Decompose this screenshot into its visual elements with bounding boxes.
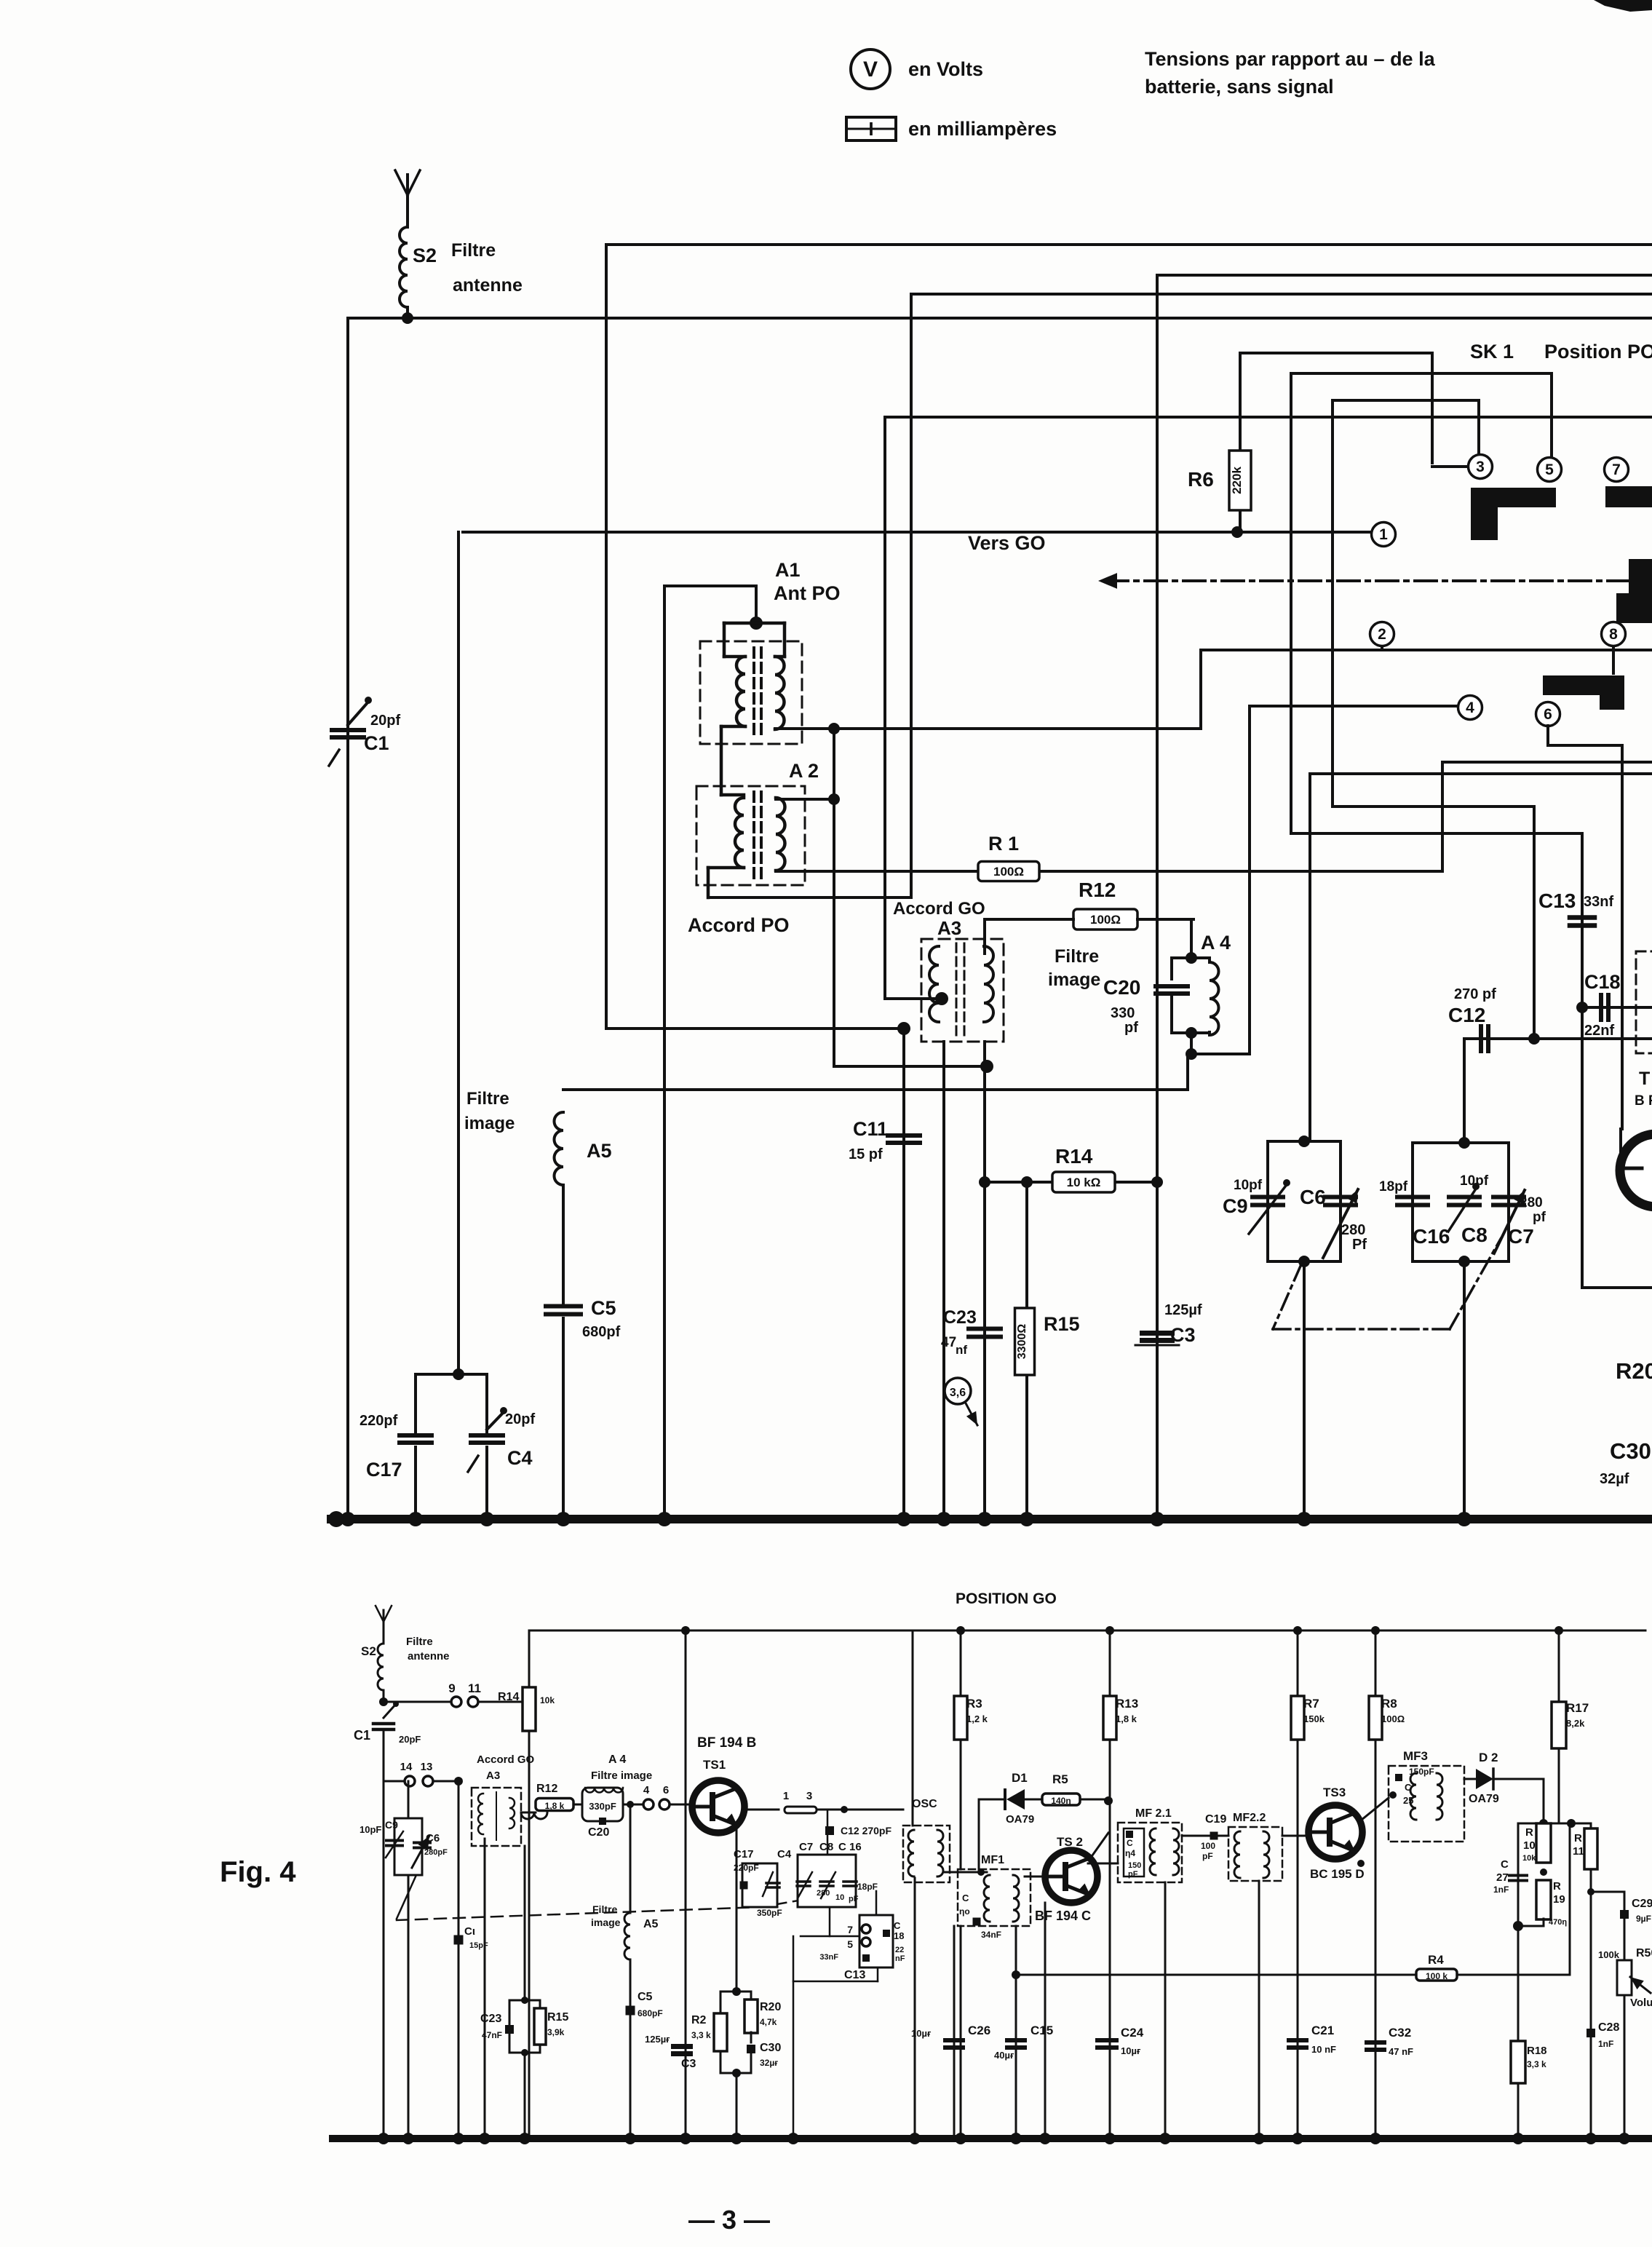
svg-text:47 nF: 47 nF — [1389, 2046, 1413, 2057]
svg-text:A3: A3 — [486, 1770, 500, 1782]
svg-text:C7: C7 — [1508, 1225, 1534, 1248]
svg-text:image: image — [1048, 970, 1100, 990]
svg-text:ηο: ηο — [959, 1906, 970, 1917]
svg-text:image: image — [591, 1917, 621, 1928]
svg-text:C5: C5 — [638, 1991, 653, 2003]
svg-text:TS3: TS3 — [1323, 1786, 1346, 1799]
svg-text:R15: R15 — [1044, 1313, 1080, 1335]
svg-text:C17: C17 — [366, 1459, 402, 1481]
svg-text:C32: C32 — [1389, 2026, 1411, 2040]
svg-text:C12 270pF: C12 270pF — [841, 1825, 891, 1836]
svg-text:100: 100 — [1201, 1841, 1215, 1851]
svg-text:C20: C20 — [1103, 976, 1140, 999]
svg-text:33nf: 33nf — [1584, 894, 1613, 910]
svg-text:10µғ: 10µғ — [1121, 2045, 1141, 2056]
svg-text:100 k: 100 k — [1426, 1971, 1448, 1981]
svg-text:20pF: 20pF — [399, 1734, 421, 1745]
svg-text:Filtre: Filtre — [592, 1903, 617, 1915]
svg-text:nF: nF — [895, 1954, 905, 1963]
svg-text:1: 1 — [1379, 526, 1388, 543]
svg-text:batterie, sans signal: batterie, sans signal — [1145, 76, 1334, 98]
svg-text:antenne: antenne — [408, 1650, 450, 1663]
svg-text:125µf: 125µf — [1164, 1302, 1202, 1318]
svg-text:A 2: A 2 — [789, 760, 819, 782]
svg-text:3300Ω: 3300Ω — [1016, 1324, 1028, 1360]
svg-text:10k: 10k — [540, 1695, 555, 1705]
svg-text:C17: C17 — [734, 1848, 754, 1860]
svg-text:280: 280 — [817, 1889, 830, 1898]
svg-text:C6: C6 — [426, 1832, 440, 1844]
svg-text:20pf: 20pf — [370, 713, 400, 729]
svg-text:Accord PO: Accord PO — [688, 914, 790, 936]
svg-text:4: 4 — [1466, 700, 1474, 716]
svg-text:220pf: 220pf — [360, 1413, 398, 1429]
svg-text:470η: 470η — [1549, 1918, 1567, 1927]
svg-text:14: 14 — [400, 1761, 413, 1773]
svg-text:image: image — [464, 1114, 515, 1133]
svg-text:en milliampères: en milliampères — [908, 118, 1057, 140]
svg-text:A3: A3 — [937, 917, 961, 939]
svg-text:— 3 —: — 3 — — [688, 2205, 770, 2235]
svg-text:47: 47 — [941, 1335, 956, 1350]
svg-text:6: 6 — [663, 1784, 669, 1796]
svg-text:Accord GO: Accord GO — [893, 899, 985, 919]
svg-text:R14: R14 — [498, 1691, 519, 1703]
svg-text:3,9k: 3,9k — [547, 2027, 565, 2037]
svg-text:10 kΩ: 10 kΩ — [1067, 1176, 1101, 1189]
svg-text:S2: S2 — [361, 1644, 376, 1658]
svg-text:R20: R20 — [1616, 1358, 1652, 1384]
svg-text:C7: C7 — [799, 1841, 813, 1853]
svg-text:OA79: OA79 — [1469, 1793, 1499, 1805]
svg-text:pf: pf — [1533, 1210, 1546, 1225]
svg-text:125µғ: 125µғ — [645, 2034, 670, 2045]
svg-text:10k: 10k — [1522, 1854, 1536, 1863]
svg-text:D1: D1 — [1012, 1771, 1028, 1785]
svg-text:C9: C9 — [385, 1819, 398, 1831]
svg-text:Fig. 4: Fig. 4 — [220, 1856, 296, 1888]
svg-text:R 1: R 1 — [988, 833, 1019, 855]
svg-text:R: R — [1553, 1880, 1561, 1893]
svg-text:13: 13 — [421, 1761, 433, 1773]
svg-text:OSC: OSC — [912, 1798, 937, 1810]
svg-text:7: 7 — [847, 1924, 853, 1935]
svg-text:MF 2.1: MF 2.1 — [1135, 1807, 1172, 1820]
svg-text:C13: C13 — [844, 1969, 865, 1981]
svg-text:C: C — [1501, 1858, 1509, 1871]
svg-text:C19: C19 — [1205, 1813, 1226, 1826]
svg-text:350pF: 350pF — [757, 1908, 782, 1918]
svg-text:10: 10 — [835, 1893, 844, 1902]
svg-text:18pF: 18pF — [857, 1882, 878, 1892]
svg-text:R4: R4 — [1428, 1953, 1444, 1967]
svg-text:19: 19 — [1553, 1893, 1565, 1906]
svg-text:140η: 140η — [1051, 1796, 1071, 1806]
svg-text:D 2: D 2 — [1479, 1751, 1498, 1764]
svg-text:7: 7 — [1612, 461, 1621, 478]
svg-text:C1: C1 — [364, 732, 389, 754]
svg-text:5: 5 — [847, 1938, 853, 1950]
svg-text:100Ω: 100Ω — [993, 865, 1024, 879]
svg-text:4,7k: 4,7k — [760, 2017, 777, 2027]
svg-text:15 pf: 15 pf — [849, 1146, 883, 1162]
svg-text:C15: C15 — [1030, 2024, 1053, 2037]
svg-text:C30: C30 — [1610, 1438, 1651, 1464]
svg-text:3,3 k: 3,3 k — [691, 2030, 711, 2040]
svg-text:POSITION GO: POSITION GO — [956, 1590, 1057, 1607]
svg-text:B F: B F — [1635, 1093, 1652, 1109]
svg-text:100Ω: 100Ω — [1090, 913, 1121, 927]
svg-text:R12: R12 — [1079, 879, 1116, 901]
svg-text:32µғ: 32µғ — [760, 2058, 778, 2068]
svg-text:C30: C30 — [760, 2042, 781, 2054]
svg-text:Cι: Cι — [464, 1925, 475, 1938]
svg-text:Position PO: Position PO — [1544, 341, 1652, 362]
svg-text:R2: R2 — [691, 2014, 707, 2026]
svg-text:22nf: 22nf — [1584, 1023, 1614, 1039]
svg-text:Accord GO: Accord GO — [477, 1753, 535, 1766]
svg-text:150: 150 — [1128, 1861, 1141, 1870]
svg-text:1,2 k: 1,2 k — [966, 1713, 988, 1724]
svg-text:18: 18 — [894, 1930, 904, 1941]
svg-text:1,8 k: 1,8 k — [545, 1801, 565, 1811]
svg-text:9µF: 9µF — [1636, 1914, 1651, 1924]
svg-text:C13: C13 — [1538, 889, 1576, 912]
svg-text:C6: C6 — [1300, 1186, 1326, 1208]
svg-text:I: I — [868, 118, 873, 140]
svg-text:antenne: antenne — [453, 275, 523, 296]
svg-text:3,6: 3,6 — [950, 1387, 966, 1399]
svg-text:32µf: 32µf — [1600, 1471, 1629, 1487]
svg-text:BF 194 C: BF 194 C — [1035, 1909, 1091, 1923]
svg-text:pf: pf — [1124, 1020, 1138, 1036]
svg-text:1: 1 — [783, 1790, 789, 1802]
svg-text:R20: R20 — [760, 2001, 781, 2013]
svg-text:34nF: 34nF — [981, 1930, 1001, 1940]
svg-text:8: 8 — [1609, 626, 1618, 643]
svg-text:C20: C20 — [588, 1826, 609, 1839]
svg-text:nf: nf — [956, 1343, 967, 1357]
svg-text:Filtre: Filtre — [466, 1089, 509, 1109]
svg-text:150k: 150k — [1303, 1713, 1325, 1724]
svg-text:BF 194 B: BF 194 B — [697, 1735, 756, 1751]
svg-text:680pF: 680pF — [638, 2008, 663, 2018]
svg-text:280: 280 — [1520, 1195, 1543, 1210]
svg-text:MF3: MF3 — [1403, 1749, 1428, 1763]
svg-text:C9: C9 — [1223, 1195, 1248, 1217]
svg-text:10: 10 — [1523, 1839, 1536, 1852]
svg-text:OA79: OA79 — [1006, 1813, 1034, 1826]
svg-text:A 4: A 4 — [1201, 932, 1231, 954]
svg-text:η4: η4 — [1125, 1848, 1135, 1858]
svg-text:SK 1: SK 1 — [1470, 341, 1514, 362]
svg-text:R14: R14 — [1055, 1145, 1093, 1168]
svg-text:R17: R17 — [1566, 1701, 1589, 1715]
svg-text:C4: C4 — [507, 1447, 533, 1469]
svg-text:330: 330 — [1111, 1005, 1135, 1021]
svg-text:2: 2 — [1378, 626, 1386, 643]
svg-text:T: T — [1639, 1069, 1650, 1089]
svg-text:C21: C21 — [1311, 2024, 1334, 2037]
svg-text:C11: C11 — [853, 1118, 888, 1140]
svg-text:A 4: A 4 — [608, 1753, 626, 1766]
svg-text:pF: pF — [849, 1895, 859, 1903]
svg-text:pF: pF — [1202, 1851, 1213, 1861]
svg-text:R13: R13 — [1116, 1697, 1138, 1711]
svg-text:47nF: 47nF — [482, 2030, 502, 2040]
svg-text:220pF: 220pF — [734, 1863, 759, 1873]
svg-text:MF1: MF1 — [981, 1854, 1004, 1866]
svg-text:C3: C3 — [1170, 1324, 1196, 1346]
svg-text:C3: C3 — [681, 2058, 696, 2070]
svg-text:25: 25 — [1403, 1795, 1413, 1806]
svg-text:V: V — [863, 58, 878, 82]
svg-text:10pF: 10pF — [360, 1824, 381, 1835]
svg-text:R: R — [1574, 1832, 1582, 1844]
svg-text:C26: C26 — [968, 2024, 990, 2037]
svg-text:en Volts: en Volts — [908, 58, 983, 80]
svg-text:C24: C24 — [1121, 2026, 1144, 2040]
svg-text:C8: C8 — [819, 1841, 833, 1853]
svg-text:R50: R50 — [1636, 1947, 1652, 1959]
svg-text:R12: R12 — [536, 1783, 557, 1795]
svg-text:10 nF: 10 nF — [1311, 2044, 1336, 2055]
svg-text:pF: pF — [1128, 1870, 1138, 1879]
svg-text:9: 9 — [448, 1681, 455, 1695]
svg-text:C18: C18 — [1584, 971, 1621, 993]
svg-text:A5: A5 — [587, 1140, 612, 1162]
svg-text:8,2k: 8,2k — [1566, 1718, 1585, 1729]
svg-text:C: C — [1127, 1838, 1133, 1848]
svg-text:R18: R18 — [1527, 2045, 1547, 2057]
svg-text:C: C — [962, 1893, 969, 1903]
svg-text:TS1: TS1 — [703, 1758, 726, 1772]
svg-text:C1: C1 — [354, 1728, 370, 1743]
svg-text:10pf: 10pf — [1234, 1178, 1263, 1193]
svg-text:R8: R8 — [1381, 1697, 1397, 1711]
svg-text:5: 5 — [1545, 461, 1554, 478]
svg-text:C8: C8 — [1461, 1224, 1488, 1246]
svg-text:220k: 220k — [1230, 467, 1244, 494]
svg-text:C12: C12 — [1448, 1004, 1485, 1026]
svg-text:1,8 k: 1,8 k — [1116, 1713, 1137, 1724]
svg-text:Filtre: Filtre — [451, 240, 496, 261]
svg-text:22: 22 — [895, 1946, 904, 1954]
svg-text:C4: C4 — [777, 1848, 792, 1860]
svg-text:Tensions par rapport au – de l: Tensions par rapport au – de la — [1145, 48, 1436, 70]
svg-text:330pF: 330pF — [589, 1801, 616, 1812]
svg-text:Ant PO: Ant PO — [774, 582, 841, 604]
svg-text:R5: R5 — [1052, 1772, 1068, 1786]
svg-text:C23: C23 — [480, 2013, 501, 2025]
svg-text:Filtre image: Filtre image — [591, 1770, 652, 1782]
svg-text:33nF: 33nF — [819, 1953, 838, 1962]
svg-text:270 pf: 270 pf — [1454, 986, 1496, 1002]
svg-text:TS 2: TS 2 — [1057, 1835, 1083, 1849]
svg-text:10pf: 10pf — [1460, 1173, 1489, 1189]
svg-text:BC 195 D: BC 195 D — [1310, 1867, 1365, 1881]
svg-text:11: 11 — [1573, 1845, 1584, 1858]
svg-text:A1: A1 — [775, 559, 801, 581]
svg-text:C: C — [894, 1920, 901, 1931]
svg-text:C29: C29 — [1632, 1898, 1652, 1910]
svg-text:280pF: 280pF — [424, 1848, 448, 1857]
svg-text:R: R — [1525, 1826, 1533, 1839]
svg-text:6: 6 — [1544, 706, 1552, 723]
svg-text:3,3 k: 3,3 k — [1527, 2059, 1546, 2069]
svg-text:A5: A5 — [643, 1918, 659, 1930]
svg-text:C16: C16 — [1413, 1225, 1450, 1248]
svg-text:18pf: 18pf — [1379, 1179, 1408, 1194]
svg-text:Filtre: Filtre — [406, 1636, 433, 1648]
svg-text:S2: S2 — [413, 245, 437, 266]
svg-text:C5: C5 — [591, 1297, 616, 1319]
svg-text:27: 27 — [1496, 1871, 1509, 1884]
svg-text:Pf: Pf — [1352, 1237, 1367, 1253]
svg-text:20pf: 20pf — [505, 1411, 535, 1427]
svg-text:100k: 100k — [1598, 1949, 1620, 1960]
svg-text:680pf: 680pf — [582, 1324, 621, 1340]
svg-text:10µғ: 10µғ — [911, 2028, 932, 2039]
svg-text:100Ω: 100Ω — [1381, 1713, 1405, 1724]
svg-text:R7: R7 — [1303, 1697, 1319, 1711]
svg-text:11: 11 — [468, 1681, 481, 1695]
svg-text:R6: R6 — [1188, 468, 1214, 491]
svg-text:3: 3 — [1476, 459, 1485, 475]
svg-text:4: 4 — [643, 1784, 650, 1796]
svg-text:C23: C23 — [943, 1307, 977, 1328]
svg-text:R3: R3 — [966, 1697, 982, 1711]
svg-text:Filtre: Filtre — [1055, 946, 1099, 967]
svg-text:1nF: 1nF — [1493, 1885, 1509, 1895]
svg-text:Volu: Volu — [1630, 1997, 1652, 2009]
svg-text:40µғ: 40µғ — [994, 2050, 1014, 2061]
svg-text:C 16: C 16 — [838, 1841, 862, 1853]
svg-text:3: 3 — [806, 1790, 812, 1802]
svg-text:280: 280 — [1341, 1222, 1365, 1238]
svg-text:MF2.2: MF2.2 — [1233, 1812, 1266, 1824]
svg-text:R15: R15 — [547, 2011, 568, 2024]
svg-text:C28: C28 — [1598, 2021, 1619, 2034]
svg-text:Vers GO: Vers GO — [968, 532, 1046, 554]
svg-text:1nF: 1nF — [1598, 2039, 1613, 2049]
